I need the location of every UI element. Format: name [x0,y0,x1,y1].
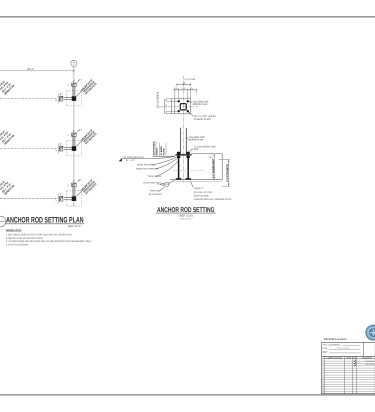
svg-text:REFER PLAN: REFER PLAN [193,103,208,106]
svg-text:BY OTHERS: BY OTHERS [149,193,162,196]
footing right edge [221,154,223,180]
horizontal bolt rod row 1 [64,97,72,99]
label heavy hex nut [188,149,193,156]
left note text (diagonal) row 1 [0,77,15,95]
svg-text:COLUMN SIZE: COLUMN SIZE [189,136,205,139]
horizontal bolt nut (hatched) row 1 [59,96,63,101]
label std holes [189,112,194,116]
footing bottom [170,179,222,181]
hex nut right above plate [187,152,190,154]
wire footing centerline [173,169,206,171]
svg-text:ASTM F1554 GR36: ASTM F1554 GR36 [194,195,209,198]
extension line row 2 [57,144,59,154]
bolt hole 1 [178,100,180,102]
title anchor rod setting [156,207,216,221]
engineer seal (blue) [366,325,375,340]
leveling nut left [177,156,180,158]
svg-text:BASE PER PLAN: BASE PER PLAN [137,164,155,167]
vertical bolt nut (hatched) row 3 [72,183,77,186]
svg-text:NON-SHRINK: NON-SHRINK [153,141,156,155]
leader stem 1 [155,141,157,157]
note text (diagonal) row 2 [81,128,98,145]
wire grid line 2 [73,67,75,208]
svg-text:SM-101.00: SM-101.00 [180,218,192,221]
extension line row 1 [57,94,59,104]
svg-text:3": 3" [73,130,75,133]
svg-text:1½: 1½ [165,98,168,101]
inspection table [322,356,375,393]
footing bottom second line [176,181,222,183]
vertical bolt rod row 2 [72,136,74,146]
title block [322,338,375,394]
svg-text:T.O. FOOTING ELEV.: T.O. FOOTING ELEV. [122,156,144,159]
svg-text:41'-6": 41'-6" [27,68,34,71]
svg-text:03/11/2021: 03/11/2021 [366,363,375,366]
vertical bolt rod row 1 [72,86,74,96]
note text (diagonal) row 1 [81,78,98,95]
svg-text:Date:: Date: [323,347,329,350]
horizontal bolt nut (hatched) row 3 [59,196,63,201]
svg-text:1½: 1½ [165,111,168,114]
horizontal bolt rod row 2 [64,147,72,149]
svg-text:1": 1" [67,134,69,137]
svg-text:(REF. S2.0): (REF. S2.0) [179,214,193,217]
svg-text:(REF. S2.0): (REF. S2.0) [68,225,81,228]
svg-text:ANCHOR ROD w/¼" WASHER PLATE: ANCHOR ROD w/¼" WASHER PLATE [194,198,232,201]
dimension 10" [177,84,191,86]
svg-text:1'-6" EMBEDMENT: 1'-6" EMBEDMENT [212,158,215,178]
dimension embedment [213,154,215,180]
vertical bolt rod row 3 [72,187,74,197]
tick mark above row 2 [78,129,81,131]
bolt hole 2 [187,100,189,102]
base plate outline [175,99,191,114]
node row 2 intersection [0,127,98,155]
wire column centerline elevation [182,124,184,182]
svg-text:TABLE 3: TABLE 3 [194,187,204,190]
svg-text:¾" BASE: ¾" BASE [160,146,163,155]
sheet bottom border [0,394,375,396]
bolt hole 4 [187,110,189,112]
svg-text:IN BASE PLATE: IN BASE PLATE [194,118,211,121]
label column size refer plan [186,138,188,139]
svg-text:1": 1" [67,84,69,87]
svg-text:1": 1" [55,99,58,101]
svg-text:3": 3" [60,93,62,96]
washer plate left [176,178,182,180]
sheet top border [0,16,375,18]
datum marker TO footing [119,158,122,161]
dimension row ticks [173,89,197,91]
node row 3 intersection [0,178,98,206]
svg-text:3": 3" [60,143,62,146]
svg-text:¾"x DIA HEAVY HEX: ¾"x DIA HEAVY HEX [194,145,217,148]
column HSS section [180,104,186,110]
svg-text:3. DO NOT SCALE DRAWING: 3. DO NOT SCALE DRAWING [6,243,29,246]
svg-text:ℏ OF COLUMN: ℏ OF COLUMN [185,78,196,81]
form box [322,342,375,356]
svg-text:1½: 1½ [190,87,193,90]
svg-text:FOOTING: FOOTING [150,190,160,193]
anchor rod setting elevation [119,124,233,201]
detail bubble (clipped) [0,216,6,226]
tick mark above row 1 [78,79,81,81]
base plate plan detail [156,76,217,125]
grid bubble 2 [71,60,77,66]
svg-text:REFER PLAN: REFER PLAN [189,139,204,142]
tick mark above row 3 [78,179,81,181]
horizontal bolt rod row 3 [64,197,72,199]
leveling nut right [187,156,190,158]
wire horizontal centerline [161,106,198,108]
column shaft [180,128,182,154]
svg-text:Pour Location: Pour Location [337,346,349,349]
general notes [6,229,92,246]
svg-text:TYP: TYP [165,183,170,186]
label column size [189,101,192,104]
svg-text:1½: 1½ [175,87,178,90]
bolt hole 3 [178,110,180,112]
base plate dashed outline row 1 [67,91,82,106]
extension line row 3 [57,194,59,204]
svg-text:Appr:: Appr: [323,351,329,354]
svg-text:3": 3" [73,80,75,83]
leader to note row 3 [76,187,85,196]
svg-text:PLATE: PLATE [163,148,166,155]
svg-text:03/04/2021: 03/04/2021 [365,360,374,363]
svg-text:ANCHOR ROD SETTING PLAN: ANCHOR ROD SETTING PLAN [6,216,84,225]
svg-text:REMARKS: REMARKS [362,356,373,359]
vertical bolt nut (hatched) row 2 [72,133,77,136]
svg-text:1'-9" FTG DEPTH: 1'-9" FTG DEPTH [226,164,229,182]
wire dashed centerline row 3 [0,198,59,200]
svg-text:2: 2 [73,62,75,66]
svg-text:(4) ¾"x STD. HOLES: (4) ¾"x STD. HOLES [194,115,216,118]
wire dashed centerline row 2 [0,148,59,150]
svg-text:Pour Card #/Floor:: Pour Card #/Floor: [323,344,341,347]
projection dim 3" [210,153,213,155]
svg-text:1": 1" [55,149,58,151]
note text (diagonal) row 3 [81,179,98,196]
svg-text:8" SQ. BASE PL: 8" SQ. BASE PL [157,91,160,106]
svg-text:(8) ¾"x DIA x 1'-6" LONG: (8) ¾"x DIA x 1'-6" LONG [194,191,213,194]
svg-text:EL. -1'-0": EL. -1'-0" [126,159,135,162]
svg-text:1": 1" [55,199,58,201]
svg-text:3": 3" [73,180,75,183]
top of footing line [191,153,222,155]
dimension to bottom of footing [228,160,230,187]
base plate dashed outline row 2 [67,141,82,156]
anchor rod cluster (black square) row 3 [72,196,77,201]
wire dashed centerline row 1 [0,98,59,100]
base plate (section) [175,154,191,156]
node row 1 intersection [0,77,98,105]
leader stem 2 [158,143,160,156]
leader to note row 1 [76,87,85,96]
svg-text:REFERENCE ELEV.: REFERENCE ELEV. [324,338,348,341]
svg-text:COLUMN SIZE: COLUMN SIZE [193,101,209,104]
wire column centerline (vertical) [183,76,185,125]
svg-text:15: 15 [322,391,324,394]
title anchor rod setting plan [0,216,84,228]
dimension line 41'-6" [0,68,75,72]
bracket under vertical notes [153,155,175,157]
left note text (diagonal) row 2 [0,127,15,145]
svg-text:¼: ¼ [157,183,159,186]
anchor rod left [178,152,180,180]
horizontal bolt nut (hatched) row 2 [59,146,63,151]
svg-text:3": 3" [60,193,62,196]
svg-text:NUT: NUT [194,148,199,151]
anchor rod right [187,152,189,180]
left dimension lines [164,99,166,114]
washer plate right [186,178,192,180]
anchor rod cluster (black square) row 1 [72,96,77,101]
svg-text:COMPLETED BY: COMPLETED BY [326,356,343,359]
vertical bolt nut (hatched) row 1 [72,83,77,86]
left note text (diagonal) row 3 [0,178,15,196]
leader to note row 2 [76,137,85,146]
anchor rod cluster (black square) row 2 [72,146,77,151]
svg-text:'TACK' WELD: 'TACK' WELD [147,175,161,178]
hex nut left above plate [177,152,180,154]
svg-text:DATE: DATE [346,356,352,359]
leader stem 3 [165,143,167,156]
svg-text:1": 1" [67,184,69,187]
base plate dashed outline row 3 [67,191,82,206]
